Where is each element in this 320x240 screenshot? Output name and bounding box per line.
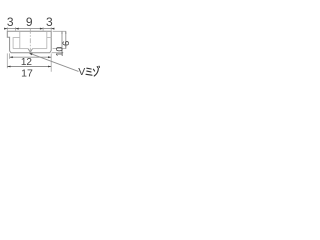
katakana mi: [86, 68, 92, 75]
svg-text:3: 3: [46, 15, 53, 29]
center line: [29, 29, 31, 55]
svg-text:6: 6: [61, 41, 72, 46]
svg-text:V: V: [78, 66, 85, 78]
channel floor: [13, 48, 28, 50]
leader line to V-groove: [30, 53, 79, 71]
svg-text:9: 9: [26, 15, 33, 29]
top dim arrows: [4, 28, 7, 30]
svg-text:10: 10: [55, 47, 65, 57]
V-groove: [28, 49, 32, 53]
interior step left: [13, 38, 20, 49]
right extension lines: [52, 31, 67, 52]
part outline (sill cross-section): [7, 31, 51, 52]
svg-text:17: 17: [21, 68, 33, 80]
bottom extension lines: [7, 53, 51, 71]
dim line 12: [10, 56, 52, 58]
katakana zo: [93, 66, 99, 76]
dim line 17: [7, 66, 51, 68]
top dimension line: [4, 28, 54, 30]
top extension ticks: [7, 27, 51, 30]
dim line 10: [61, 31, 63, 52]
dim line 6: [65, 31, 67, 48]
interior wall line right: [47, 31, 51, 48]
leader arrowhead: [29, 53, 32, 55]
interior wall line left: [19, 31, 21, 48]
svg-text:3: 3: [7, 15, 14, 29]
